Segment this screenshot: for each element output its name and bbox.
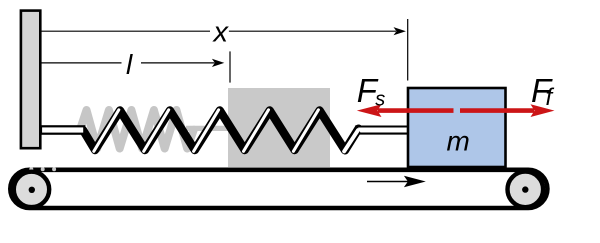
- spring white highlights on front windings: [94, 110, 319, 152]
- l arrowhead: [212, 59, 224, 67]
- dimension line x: [41, 30, 396, 32]
- ghost spring zigzag: [80, 110, 194, 149]
- force arrow Fs (spring force, leftward): [357, 104, 454, 117]
- left pulley axle: [29, 187, 35, 193]
- x end tick: [407, 19, 409, 81]
- spring last winding highlight into rod: [344, 130, 358, 151]
- wall: [21, 11, 40, 149]
- l end tick: [229, 51, 231, 82]
- svg-text:s: s: [375, 89, 385, 111]
- right pulley axle: [522, 186, 528, 192]
- belt texture dots: [29, 167, 56, 171]
- ghost spring right rod: [186, 126, 229, 131]
- belt direction arrow: [367, 176, 426, 188]
- dimension line l: [41, 62, 215, 64]
- force arrow Ff (friction force, rightward): [460, 104, 555, 117]
- right pulley: [508, 172, 544, 208]
- svg-text:l: l: [126, 49, 133, 80]
- spring left rod (wall to spring): [41, 126, 84, 133]
- spring right rod (spring to mass): [357, 127, 409, 134]
- mass m block: [408, 88, 506, 167]
- svg-text:x: x: [212, 17, 230, 49]
- conveyor belt loop: [10, 170, 547, 208]
- svg-text:m: m: [447, 126, 470, 157]
- x arrowhead: [394, 27, 406, 35]
- left pulley: [14, 172, 49, 207]
- spring (black, stretched): [83, 111, 359, 151]
- ghost spring left lead: [43, 127, 81, 132]
- ghost mass rectangle (natural length position): [228, 88, 330, 167]
